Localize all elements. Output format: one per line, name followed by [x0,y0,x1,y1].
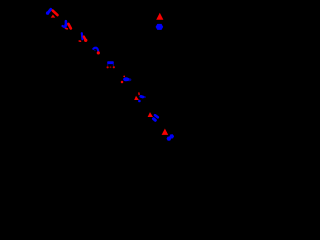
marker pair 6 [121,76,132,84]
marker pair 5 [107,61,115,68]
marker pair 3 [79,33,87,42]
marker pair 8 [148,112,158,120]
marker pair 9 [162,129,175,141]
marker pair 1 (top-left) [46,9,58,17]
marker pair 2 [63,21,71,29]
large blue hexagon marker (top right) [156,24,164,30]
marker pair 7 [134,93,145,102]
large red triangle marker (top right) [156,13,163,20]
marker pair 4 [93,48,100,55]
